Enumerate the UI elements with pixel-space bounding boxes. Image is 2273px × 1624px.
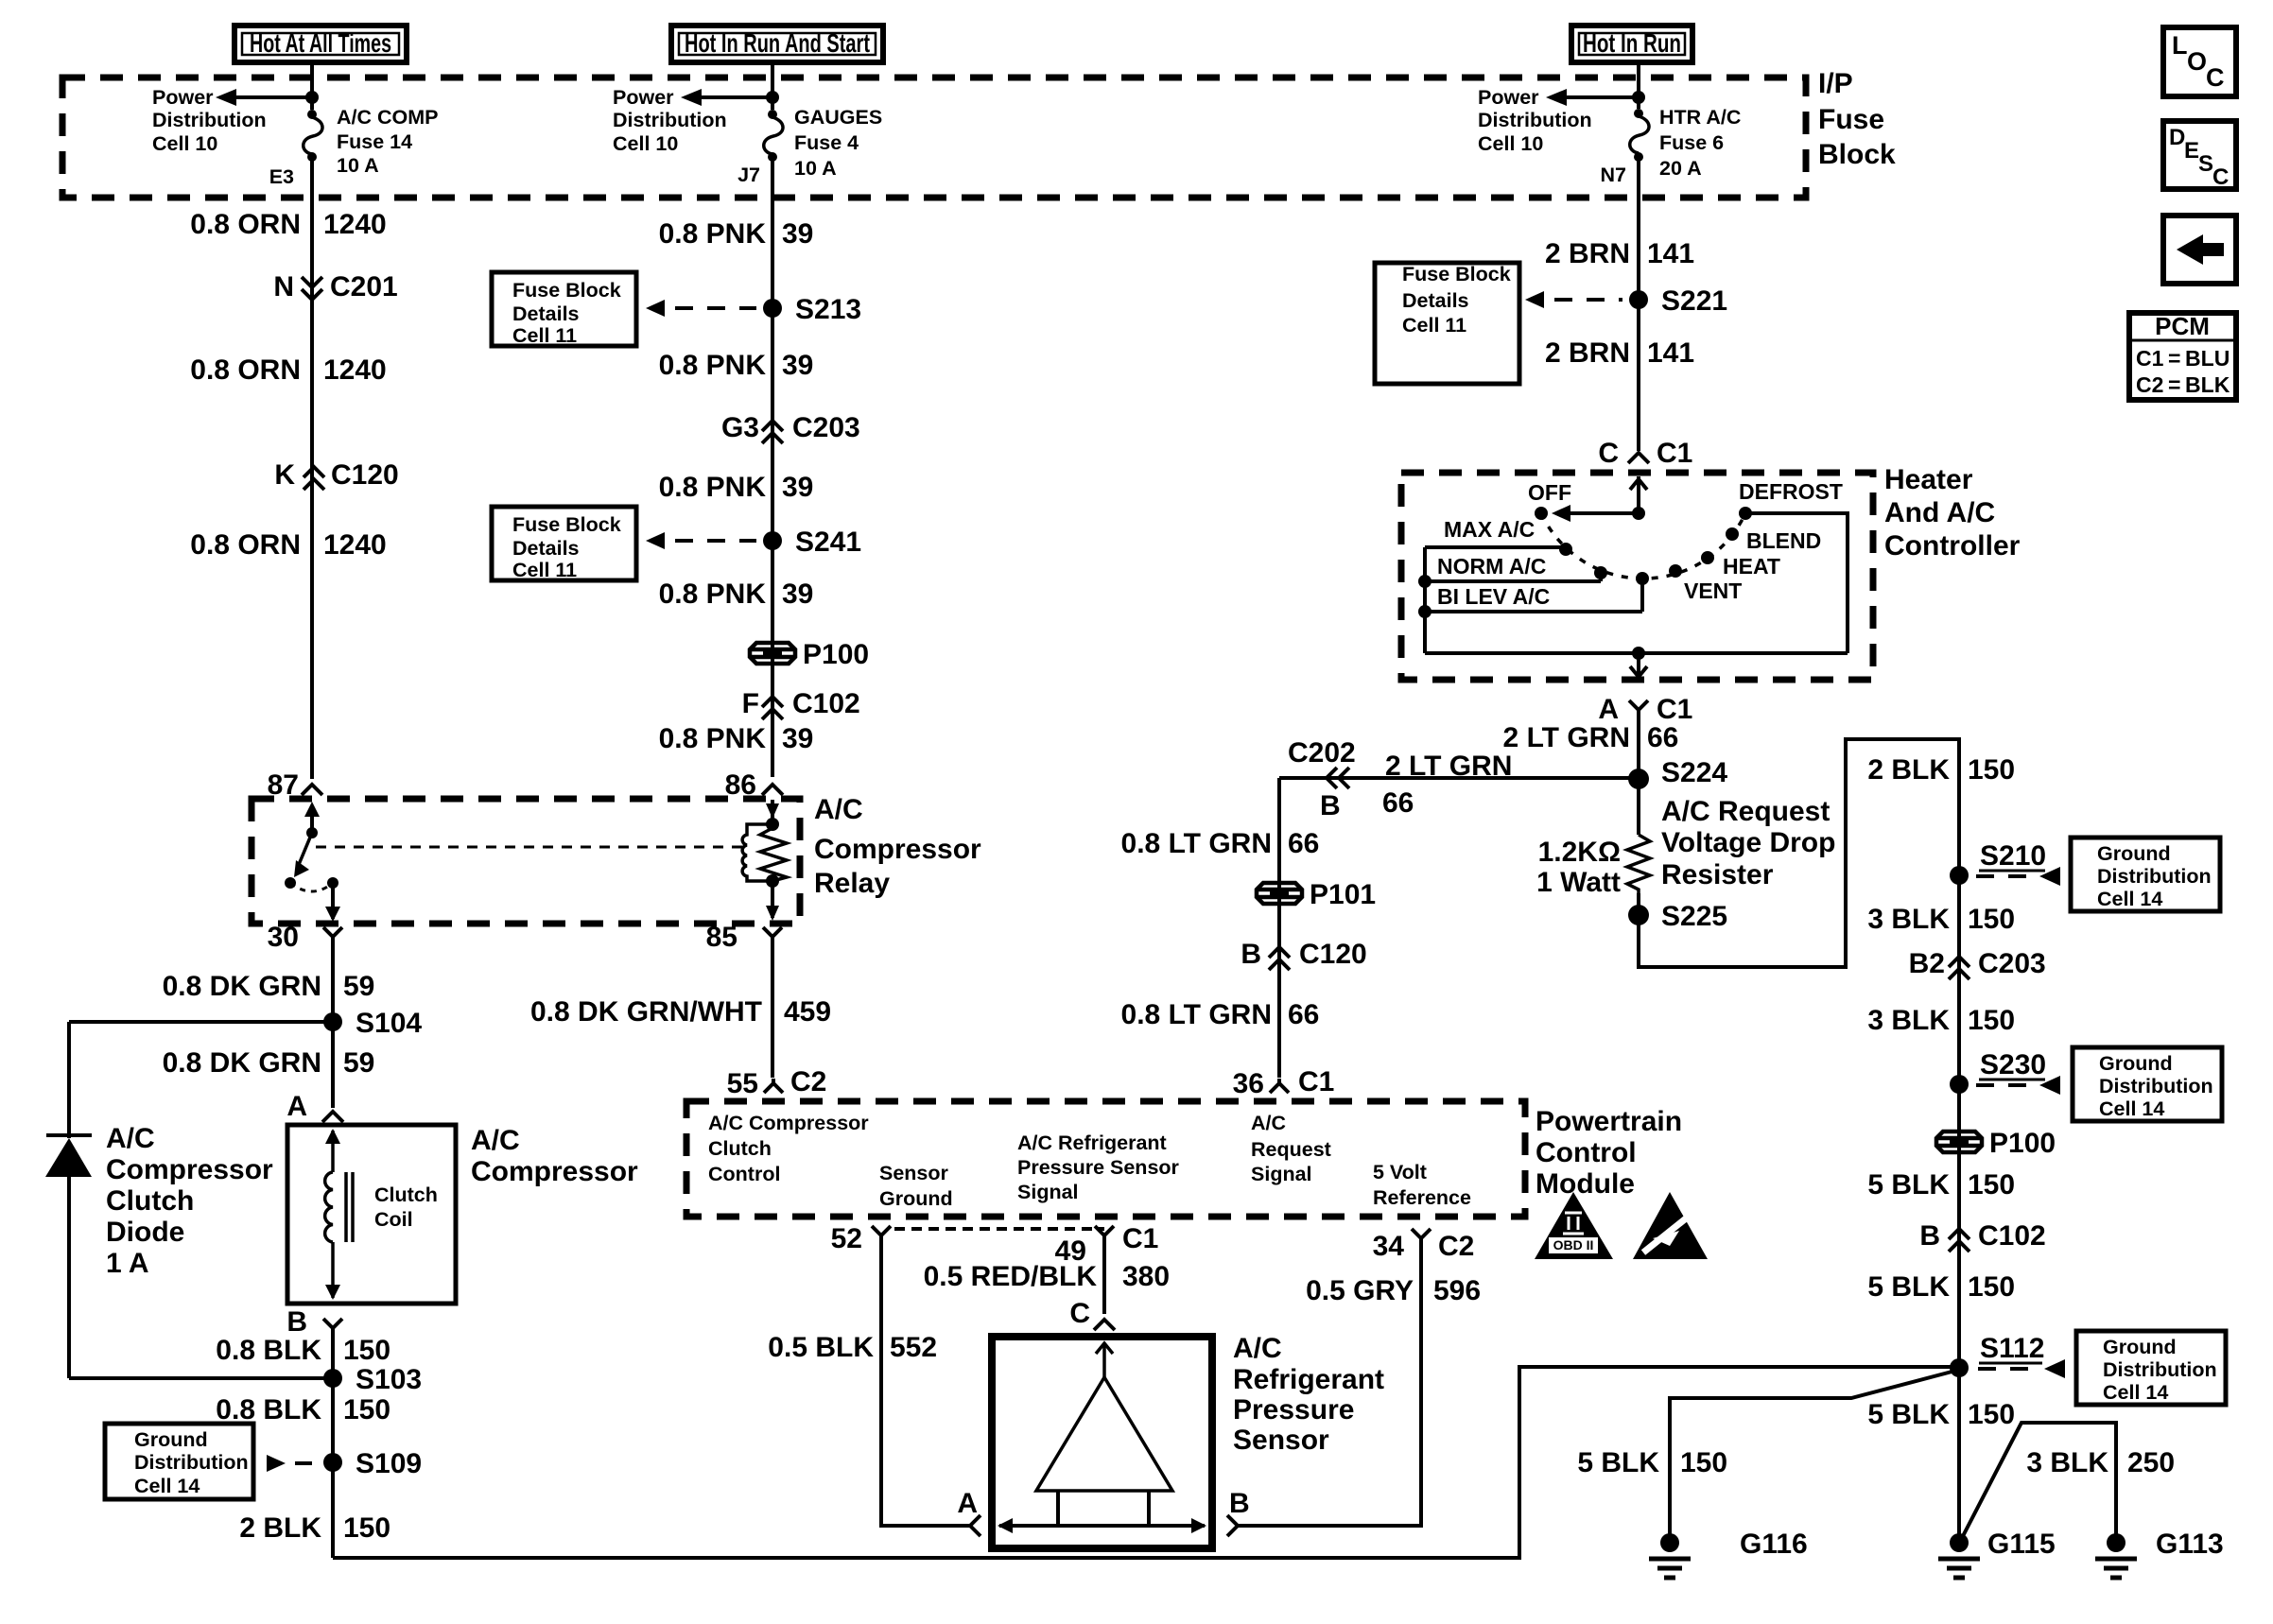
svg-text:A/C: A/C — [471, 1125, 520, 1156]
label A/C COMP Fuse 14 10 A — [337, 106, 439, 177]
svg-text:596: 596 — [1433, 1275, 1481, 1306]
switch feed wire with up arrow — [1630, 476, 1647, 520]
svg-text:0.8 PNK: 0.8 PNK — [659, 723, 767, 754]
switch shelf NORM A/C — [1425, 573, 1601, 581]
svg-text:Cell 11: Cell 11 — [512, 324, 577, 347]
svg-text:Ground: Ground — [2097, 842, 2171, 865]
svg-text:86: 86 — [725, 769, 756, 801]
label 2 LT GRN 66 — [1503, 722, 1679, 753]
svg-text:Request: Request — [1251, 1138, 1331, 1161]
svg-text:39: 39 — [782, 350, 813, 381]
fuse F14 A/C COMP — [304, 110, 322, 162]
relay coil output to pin 85 — [766, 881, 779, 921]
wire 3 BLK 250 branch — [1962, 1423, 2116, 1543]
svg-text:1240: 1240 — [323, 529, 387, 561]
label A/C Compressor — [471, 1125, 638, 1187]
svg-text:Refrigerant: Refrigerant — [1233, 1364, 1384, 1395]
svg-text:C1: C1 — [1657, 438, 1692, 469]
pin 30 — [268, 922, 342, 953]
svg-text:Sensor: Sensor — [1233, 1425, 1329, 1456]
svg-text:Hot In Run: Hot In Run — [1583, 28, 1681, 58]
splice S241 — [763, 527, 861, 558]
label 3 BLK 150 (1) — [1867, 904, 2015, 935]
wire S109 bottom run to S112 — [333, 1367, 1959, 1558]
svg-text:B: B — [1919, 1220, 1940, 1252]
svg-text:Fuse 4: Fuse 4 — [794, 131, 859, 154]
svg-text:Ground: Ground — [2099, 1052, 2173, 1075]
svg-text:Fuse 14: Fuse 14 — [337, 130, 412, 153]
label 2 BRN 141 (1) — [1545, 238, 1694, 269]
svg-text:C2: C2 — [790, 1066, 826, 1097]
relay coil feed from 86 — [766, 800, 779, 831]
svg-text:Cell 11: Cell 11 — [512, 559, 577, 581]
switch contact NORM A/C — [1594, 566, 1607, 579]
splice S225 — [1628, 901, 1727, 932]
svg-text:3 BLK: 3 BLK — [2026, 1447, 2108, 1478]
label 3 BLK 250 — [2026, 1447, 2175, 1478]
svg-text:55: 55 — [727, 1068, 758, 1099]
svg-text:B: B — [1320, 790, 1341, 821]
splice S230 — [1950, 1049, 2046, 1094]
switch bottom rail — [1425, 647, 1848, 660]
wire pin34 to sensor B — [1238, 1247, 1421, 1526]
svg-text:S225: S225 — [1661, 901, 1727, 932]
svg-text:150: 150 — [1968, 1399, 2015, 1430]
splice S224 — [1628, 757, 1727, 789]
svg-text:52: 52 — [831, 1223, 862, 1254]
svg-text:3 BLK: 3 BLK — [1867, 1005, 1950, 1036]
label 0.8 PNK 39 (5) — [659, 723, 814, 754]
label I/P Fuse Block — [1818, 68, 1896, 170]
header box Hot In Run And Start — [671, 26, 883, 62]
fuse block details box 1 — [492, 272, 636, 347]
relay movable arm — [294, 833, 312, 877]
svg-text:150: 150 — [343, 1394, 390, 1425]
svg-text:A/C: A/C — [1251, 1112, 1286, 1134]
pass-through grommet P100 (rail) — [1936, 1128, 2056, 1159]
PCM label A/C Refrigerant Pressure Sensor Signal — [1017, 1132, 1180, 1203]
svg-text:Cell 10: Cell 10 — [152, 132, 217, 155]
switch contact OFF — [1535, 507, 1548, 520]
svg-text:150: 150 — [343, 1512, 390, 1544]
pin 52 — [831, 1223, 891, 1254]
svg-text:1240: 1240 — [323, 354, 387, 386]
svg-text:A: A — [286, 1091, 307, 1122]
svg-text:Sensor: Sensor — [879, 1162, 949, 1184]
diode branch wire lower — [67, 1177, 71, 1378]
svg-text:2 BLK: 2 BLK — [239, 1512, 321, 1544]
resistor 1.2K zigzag — [1627, 835, 1650, 893]
pin 87 — [268, 769, 322, 801]
svg-text:66: 66 — [1382, 787, 1414, 819]
svg-text:1 A: 1 A — [106, 1248, 149, 1279]
switch shelf BI LEV A/C — [1425, 579, 1642, 612]
svg-text:Details: Details — [512, 302, 580, 325]
label 1.2K ohm 1 Watt — [1536, 837, 1621, 898]
pin 49 C1 — [1055, 1223, 1159, 1267]
svg-text:0.8 PNK: 0.8 PNK — [659, 218, 767, 250]
label 0.8 BLK 150 (1) — [216, 1335, 390, 1366]
svg-text:0.5 GRY: 0.5 GRY — [1306, 1275, 1414, 1306]
svg-text:552: 552 — [890, 1332, 937, 1363]
power distribution arrow left — [216, 89, 319, 106]
label 2 BRN 141 (2) — [1545, 337, 1694, 369]
label 5 BLK 150 (3) — [1867, 1399, 2015, 1430]
wire S225 loop to ground rail — [1639, 739, 1959, 967]
svg-text:0.5 BLK: 0.5 BLK — [768, 1332, 874, 1363]
svg-text:Distribution: Distribution — [2103, 1358, 2217, 1381]
pin 34 C2 — [1373, 1229, 1475, 1262]
svg-text:39: 39 — [782, 472, 813, 503]
svg-text:Fuse Block: Fuse Block — [1402, 263, 1511, 285]
svg-text:HEAT: HEAT — [1723, 554, 1780, 579]
PCM legend box — [2129, 312, 2236, 400]
connector C1 pin A (heater out) — [1598, 694, 1692, 725]
dashed arrow S112 to ground box — [1978, 1359, 2065, 1378]
svg-text:Ground: Ground — [879, 1187, 953, 1210]
svg-text:Power: Power — [613, 86, 674, 109]
svg-text:PCM: PCM — [2155, 312, 2210, 340]
svg-text:C203: C203 — [1978, 948, 2046, 979]
switch contact BLEND — [1726, 527, 1739, 541]
ground distribution box (S112) — [2076, 1331, 2226, 1405]
svg-text:36: 36 — [1233, 1068, 1264, 1099]
relay mech dashed link — [316, 846, 743, 849]
connector C120 pin K — [274, 459, 398, 491]
svg-text:Distribution: Distribution — [1478, 109, 1592, 131]
label 0.8 DK GRN 59 (2) — [163, 1047, 375, 1079]
pass-through grommet P100 (middle) — [750, 639, 869, 670]
svg-text:C: C — [2212, 164, 2229, 190]
sensor internal arrow to C — [1096, 1343, 1113, 1377]
wire from Hot At All Times into fuse block — [310, 62, 314, 110]
dashed arrow S213 to box — [646, 300, 756, 317]
svg-text:2 LT GRN: 2 LT GRN — [1503, 722, 1630, 753]
svg-text:Details: Details — [512, 537, 580, 560]
relay coil resistor zigzag — [760, 824, 787, 881]
svg-text:1240: 1240 — [323, 209, 387, 240]
A/C refrigerant pressure sensor box — [992, 1337, 1212, 1548]
label 0.8 ORN 1240 (1) — [190, 209, 386, 240]
pin 55 C2 — [727, 1066, 827, 1099]
label 0.8 PNK 39 (4) — [659, 579, 814, 610]
fuse F6 HTR A/C — [1630, 109, 1649, 162]
svg-text:E3: E3 — [269, 165, 294, 188]
svg-text:Distribution: Distribution — [152, 109, 267, 131]
svg-text:Hot At All Times: Hot At All Times — [250, 28, 391, 58]
power distribution arrow right — [1546, 89, 1645, 106]
svg-text:C203: C203 — [792, 412, 860, 443]
connector C202 pin B — [1288, 737, 1356, 821]
label 0.8 LT GRN 66 (1) — [1121, 828, 1320, 859]
splice S104 — [323, 1008, 422, 1039]
A/C compressor box — [287, 1125, 456, 1304]
svg-text:BLEND: BLEND — [1746, 528, 1821, 553]
label 0.8 ORN 1240 (2) — [190, 354, 386, 386]
svg-text:C1: C1 — [1298, 1066, 1334, 1097]
svg-text:Cell 14: Cell 14 — [134, 1475, 200, 1497]
svg-text:C120: C120 — [331, 459, 399, 491]
dashed arrow S241 to box — [646, 532, 756, 549]
switch feed arm to OFF — [1552, 505, 1639, 522]
fuse block details box 3 — [1375, 263, 1519, 384]
connector C102 pin B — [1919, 1220, 2045, 1252]
svg-text:Compressor: Compressor — [814, 834, 981, 865]
svg-text:Fuse: Fuse — [1818, 104, 1884, 135]
svg-text:0.8 DK GRN: 0.8 DK GRN — [163, 1047, 321, 1079]
svg-text:Module: Module — [1536, 1168, 1635, 1200]
diode branch wire upper — [67, 1022, 71, 1138]
svg-text:Coil: Coil — [374, 1208, 413, 1231]
svg-text:P100: P100 — [1989, 1128, 2056, 1159]
svg-text:Distribution: Distribution — [613, 109, 727, 131]
label Powertrain Control Module — [1536, 1106, 1682, 1200]
wire S224 to C202 — [1279, 776, 1639, 780]
label A/C Request Voltage Drop Resister — [1661, 796, 1835, 890]
svg-text:150: 150 — [1968, 1005, 2015, 1036]
sensor triangle element — [1036, 1377, 1172, 1491]
svg-text:S224: S224 — [1661, 757, 1727, 788]
switch rotary dashed arc — [1541, 513, 1745, 579]
svg-text:N: N — [273, 271, 294, 302]
A/C compressor clutch diode — [45, 1135, 92, 1177]
splice S112 — [1950, 1333, 2044, 1377]
dashed arrow S230 to ground box — [1976, 1076, 2060, 1095]
relay contact dashed arc — [290, 883, 333, 891]
svg-text:Cell 14: Cell 14 — [2097, 888, 2162, 910]
pin 86 — [725, 769, 783, 801]
wire A C1 to S224 — [1637, 710, 1640, 835]
svg-text:0.8 DK GRN/WHT: 0.8 DK GRN/WHT — [530, 996, 762, 1028]
ground distribution box (S109) — [105, 1424, 253, 1499]
svg-text:39: 39 — [782, 579, 813, 610]
ground G113 — [2095, 1529, 2224, 1578]
svg-text:34: 34 — [1373, 1231, 1405, 1262]
svg-text:Cell 14: Cell 14 — [2103, 1381, 2168, 1404]
svg-text:S241: S241 — [795, 527, 861, 558]
svg-text:S210: S210 — [1980, 840, 2046, 872]
svg-text:And A/C: And A/C — [1884, 497, 1995, 528]
svg-text:Details: Details — [1402, 289, 1469, 312]
label 0.5 GRY 596 — [1306, 1275, 1481, 1306]
svg-text:A: A — [957, 1488, 978, 1519]
svg-text:D: D — [2169, 125, 2185, 150]
ground rail wire S210 to G115 — [1957, 875, 1961, 1543]
svg-text:I/P: I/P — [1818, 68, 1853, 99]
svg-text:141: 141 — [1647, 238, 1694, 269]
svg-text:39: 39 — [782, 218, 813, 250]
ground distribution box (S230) — [2073, 1047, 2222, 1121]
svg-text:Ground: Ground — [2103, 1336, 2177, 1358]
pass-through grommet P101 — [1257, 879, 1376, 910]
svg-text:150: 150 — [1968, 1169, 2015, 1201]
switch left rail — [1418, 547, 1431, 653]
svg-text:0.8 ORN: 0.8 ORN — [190, 209, 301, 240]
svg-text:C102: C102 — [792, 688, 860, 719]
svg-text:39: 39 — [782, 723, 813, 754]
svg-text:Power: Power — [152, 86, 214, 109]
svg-text:150: 150 — [343, 1335, 390, 1366]
label HTR A/C Fuse 6 20 A — [1659, 106, 1741, 180]
back arrow box — [2163, 216, 2236, 284]
svg-text:B: B — [1229, 1488, 1250, 1519]
label 2 LT GRN 66 (C202 run) — [1382, 751, 1512, 819]
svg-text:O: O — [2187, 47, 2207, 76]
heater and A/C controller dashed box — [1401, 473, 1873, 680]
svg-text:3 BLK: 3 BLK — [1867, 904, 1950, 935]
svg-text:A/C Request: A/C Request — [1661, 796, 1830, 827]
label Heater And A/C Controller — [1884, 464, 2021, 561]
svg-text:A/C: A/C — [1233, 1333, 1282, 1364]
svg-text:S112: S112 — [1980, 1333, 2044, 1364]
label 5 BLK 150 (2) — [1867, 1271, 2015, 1303]
svg-text:Pressure Sensor: Pressure Sensor — [1017, 1156, 1180, 1179]
svg-text:250: 250 — [2127, 1447, 2175, 1478]
relay contact dots — [285, 877, 338, 889]
svg-text:S230: S230 — [1980, 1049, 2046, 1080]
svg-text:1.2KΩ: 1.2KΩ — [1538, 837, 1621, 868]
svg-text:S104: S104 — [356, 1008, 422, 1039]
svg-text:DEFROST: DEFROST — [1739, 479, 1843, 504]
svg-text:BI LEV A/C: BI LEV A/C — [1437, 584, 1550, 609]
svg-text:Distribution: Distribution — [134, 1451, 249, 1474]
PCM label A/C Request Signal — [1251, 1112, 1331, 1185]
label 0.8 PNK 39 (2) — [659, 350, 814, 381]
wire pin49 to sensor C — [1102, 1244, 1106, 1314]
svg-text:59: 59 — [343, 1047, 374, 1079]
relay switch common from pin 87 — [304, 802, 320, 838]
ESD triangle — [1633, 1192, 1708, 1259]
I/P fuse block dashed box — [62, 78, 1806, 198]
connector C102 pin F — [742, 688, 860, 719]
svg-text:B: B — [1241, 939, 1261, 970]
label 2 BLK 150 — [239, 1512, 390, 1544]
label 0.8 PNK 39 (1) — [659, 218, 814, 250]
fuse block details box 2 — [492, 507, 636, 581]
relay output to pin 30 — [325, 883, 340, 922]
svg-text:0.8 PNK: 0.8 PNK — [659, 350, 767, 381]
svg-text:A/C COMP: A/C COMP — [337, 106, 439, 129]
label 5 BLK 150 (G116) — [1577, 1447, 1727, 1478]
pin C sensor — [1069, 1298, 1115, 1330]
svg-text:Signal: Signal — [1251, 1163, 1312, 1185]
fuse F4 GAUGES — [764, 110, 783, 162]
label 0.8 BLK 150 (2) — [216, 1394, 390, 1425]
svg-text:Distribution: Distribution — [2097, 865, 2212, 888]
svg-text:10 A: 10 A — [794, 157, 837, 180]
svg-text:Cell 10: Cell 10 — [1478, 132, 1543, 155]
PCM label 5 Volt Reference — [1373, 1161, 1471, 1209]
svg-text:A/C: A/C — [814, 794, 863, 825]
dashed arrow S210 to ground box — [1976, 867, 2060, 886]
label 2 BLK 150 (rail top) — [1867, 754, 2015, 786]
svg-text:Fuse Block: Fuse Block — [512, 513, 621, 536]
svg-text:0.8 LT GRN: 0.8 LT GRN — [1121, 999, 1272, 1030]
svg-text:C2: C2 — [1438, 1231, 1474, 1262]
svg-text:C1: C1 — [1657, 694, 1692, 725]
ground G115 — [1938, 1529, 2056, 1578]
label A/C Compressor Relay — [814, 794, 981, 899]
svg-text:L: L — [2172, 31, 2188, 60]
label 0.8 DK GRN/WHT 459 — [530, 996, 831, 1028]
ground distribution box (S210) — [2071, 838, 2220, 911]
svg-text:MAX A/C: MAX A/C — [1444, 517, 1535, 542]
svg-text:5 BLK: 5 BLK — [1867, 1169, 1950, 1201]
svg-text:Heater: Heater — [1884, 464, 1973, 495]
svg-text:C2 = BLK: C2 = BLK — [2136, 372, 2230, 397]
relay coil bottom node — [766, 874, 779, 888]
svg-text:K: K — [274, 459, 295, 491]
svg-text:0.8 ORN: 0.8 ORN — [190, 529, 301, 561]
label 0.8 ORN 1240 (3) — [190, 529, 386, 561]
wire G116 branch — [1670, 1370, 1959, 1543]
svg-text:150: 150 — [1680, 1447, 1727, 1478]
label Power Distribution Cell 10 (left) — [152, 86, 267, 155]
svg-text:Cell 14: Cell 14 — [2099, 1097, 2164, 1120]
dashed arrow S221 to box — [1525, 291, 1622, 308]
svg-text:VENT: VENT — [1684, 579, 1742, 603]
wire fuse4 down to S213 — [771, 157, 774, 777]
svg-text:5 BLK: 5 BLK — [1867, 1271, 1950, 1303]
svg-text:E: E — [2184, 138, 2199, 164]
svg-text:OBD II: OBD II — [1553, 1237, 1594, 1253]
svg-text:2 BRN: 2 BRN — [1545, 337, 1630, 369]
svg-text:Cell 10: Cell 10 — [613, 132, 678, 155]
svg-text:459: 459 — [784, 996, 831, 1028]
svg-text:0.8 DK GRN: 0.8 DK GRN — [163, 971, 321, 1002]
label Power Distribution Cell 10 (middle) — [613, 86, 727, 155]
label 0.8 PNK 39 (3) — [659, 472, 814, 503]
svg-text:C: C — [1598, 438, 1619, 469]
pin 85 — [706, 922, 782, 953]
svg-text:2 BLK: 2 BLK — [1867, 754, 1950, 786]
svg-text:0.8 BLK: 0.8 BLK — [216, 1335, 321, 1366]
svg-text:5 Volt: 5 Volt — [1373, 1161, 1427, 1183]
svg-text:5 BLK: 5 BLK — [1577, 1447, 1659, 1478]
label GAUGES Fuse 4 10 A — [794, 106, 882, 180]
wire S104 to diode — [69, 1020, 333, 1024]
relay coil — [742, 824, 772, 881]
svg-text:C202: C202 — [1288, 737, 1356, 769]
svg-text:Clutch: Clutch — [106, 1185, 194, 1217]
svg-text:Voltage Drop: Voltage Drop — [1661, 827, 1835, 858]
svg-text:C1 = BLU: C1 = BLU — [2136, 346, 2230, 371]
svg-text:C201: C201 — [330, 271, 398, 302]
svg-text:J7: J7 — [737, 164, 760, 186]
ground G116 — [1649, 1529, 1808, 1578]
svg-text:S213: S213 — [795, 294, 861, 325]
connector C203 pin G3 — [721, 412, 860, 443]
connector C203 pin B2 — [1909, 948, 2046, 979]
svg-text:2 LT GRN: 2 LT GRN — [1385, 751, 1512, 782]
svg-text:Power: Power — [1478, 86, 1539, 109]
svg-text:2 BRN: 2 BRN — [1545, 238, 1630, 269]
svg-text:S221: S221 — [1661, 285, 1727, 317]
svg-text:C102: C102 — [1978, 1220, 2046, 1252]
svg-text:66: 66 — [1647, 722, 1678, 753]
pin A compressor — [286, 1091, 343, 1122]
svg-text:Fuse Block: Fuse Block — [512, 279, 621, 302]
wire C202 down to pin 36 — [1277, 778, 1281, 1078]
svg-text:1 Watt: 1 Watt — [1536, 867, 1621, 898]
svg-text:0.8 LT GRN: 0.8 LT GRN — [1121, 828, 1272, 859]
svg-text:Cell 11: Cell 11 — [1402, 314, 1466, 337]
sensor pedestal — [1058, 1491, 1149, 1526]
wire resistor to S225 — [1637, 893, 1640, 915]
svg-text:HTR A/C: HTR A/C — [1659, 106, 1741, 129]
wire pin85 to pin55 — [771, 937, 774, 1078]
svg-text:P101: P101 — [1310, 879, 1376, 910]
